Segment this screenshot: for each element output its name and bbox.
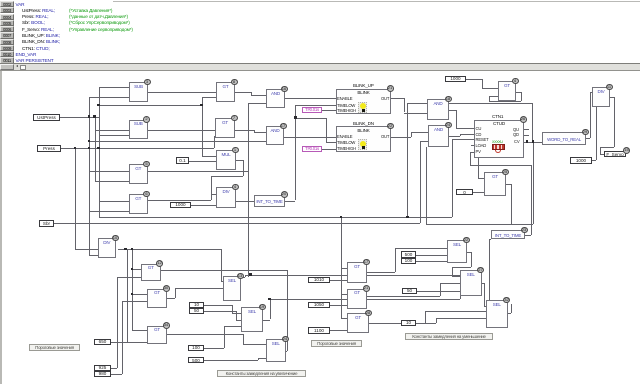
- constant box 650: [94, 339, 111, 345]
- wire: [243, 160, 244, 177]
- operator block AND 18: [427, 99, 449, 120]
- time literal T#0.01s upper: [302, 107, 322, 113]
- operator block SEL 27: [460, 270, 482, 296]
- wire junction: [131, 248, 133, 250]
- wire INT_TO_TIME23 out: [525, 235, 531, 236]
- constant box 500: [188, 357, 204, 364]
- wire to GT bottom2 in1: [341, 294, 347, 295]
- constant box 100: [188, 345, 204, 351]
- input box UstPress: [33, 114, 60, 121]
- wire GT25 out: [506, 184, 511, 185]
- wire junction: [131, 268, 133, 270]
- wire junction: [124, 248, 126, 250]
- operator block MUL 1: [216, 150, 236, 170]
- wire AND18 in1 row: [407, 103, 532, 104]
- wire: [236, 311, 237, 320]
- wire: [175, 288, 176, 298]
- wire GT34 out: [167, 334, 243, 335]
- wire 1050 to GT in2: [330, 305, 347, 306]
- wire vertical x419: [420, 141, 421, 223]
- wire junction: [406, 216, 408, 218]
- wire vertical x75: [75, 148, 76, 249]
- wire junction: [93, 115, 95, 117]
- constant box 50 right: [402, 288, 417, 294]
- wire GT4 out: [516, 92, 521, 93]
- conversion block WORD_TO_REAL 29: [542, 132, 586, 145]
- wire 1000 out: [592, 160, 596, 161]
- wire to AND16 in2: [248, 103, 267, 104]
- wire to GT30 in1: [132, 294, 147, 295]
- wire QD stub: [524, 135, 529, 136]
- wire vertical x122: [122, 301, 123, 374]
- comment threshold values right: [311, 340, 362, 347]
- declaration line 0005: [0, 20, 14, 26]
- constant box 10: [189, 302, 204, 308]
- constant box 1000: [170, 202, 191, 208]
- operator block GT 21: [347, 289, 367, 310]
- wire vertical x117: [117, 277, 118, 368]
- wire 100 to SEL22 in3: [416, 261, 447, 262]
- wire GT7 out: [235, 130, 254, 131]
- wire to MUL in1: [202, 156, 217, 157]
- bulb icon BLINK_DN: [358, 139, 367, 150]
- wire vertical x326: [326, 118, 327, 143]
- wire 1000 to DIV4 in2: [191, 205, 216, 206]
- wire branch: [295, 118, 326, 119]
- wire: [425, 311, 426, 323]
- wire DIV11 out: [610, 97, 614, 98]
- wire to GT4 in2: [489, 96, 498, 97]
- wire vertical x341: [341, 217, 342, 318]
- output box F_Servo: [604, 151, 626, 158]
- wire: [460, 292, 461, 299]
- operator block SEL 32: [486, 300, 508, 328]
- comment slowdown decrease: [405, 333, 493, 340]
- wire to GT25 in1: [478, 178, 484, 179]
- wire junction: [294, 116, 296, 118]
- wire BLINK_UP OUT: [391, 98, 404, 99]
- declaration line 0011: [0, 57, 14, 63]
- wire: [211, 176, 212, 200]
- wire 100 out: [204, 348, 224, 349]
- wire 500 out: [204, 360, 258, 361]
- wire CTN1 down: [478, 158, 479, 179]
- wire GT out: [369, 323, 425, 324]
- wire to BLINK_UP TIMELOW: [295, 105, 336, 106]
- conversion block INT_TO_TIME 20: [254, 195, 285, 207]
- wire: [614, 97, 615, 147]
- wire 925 out: [111, 368, 117, 369]
- wire to SUB2 in2: [99, 135, 130, 136]
- wire to AND17 in2: [89, 141, 266, 142]
- wire junction: [131, 293, 133, 295]
- wire: [456, 110, 457, 128]
- wire MUL out: [236, 160, 243, 161]
- wire: [436, 318, 437, 323]
- wire to GT bottom3 in1: [341, 318, 347, 319]
- splitter and scrollbar strip: [0, 63, 640, 71]
- wire QU stub: [524, 129, 529, 130]
- wire 50 out: [204, 311, 236, 312]
- operator block DIV 10: [98, 238, 117, 258]
- wire vertical x531: [531, 165, 532, 235]
- wire: [471, 252, 472, 268]
- wire vertical x201: [202, 97, 203, 156]
- wire: [245, 275, 246, 277]
- wire 500 to SEL22 in2: [416, 255, 447, 256]
- constant box 1100: [308, 327, 330, 334]
- wire SEL26 out: [482, 283, 484, 284]
- wire to SEL32 in1: [484, 306, 487, 307]
- declaration line 0010: [0, 51, 14, 57]
- declaration line 0004: [0, 14, 14, 20]
- wire to SEL26 in2: [440, 283, 460, 284]
- wire to GT8 in2: [202, 97, 217, 98]
- wire 980 out: [111, 374, 122, 375]
- wire to GT7 in2: [214, 136, 216, 137]
- wire AND24 out: [449, 136, 460, 137]
- wire to SEL26 in1: [460, 275, 461, 276]
- wire: [452, 267, 453, 276]
- wire vertical x132: [132, 249, 133, 330]
- operator block SUB 3: [129, 82, 148, 102]
- operator block GT 5: [129, 164, 148, 184]
- time literal T#0.01s lower: [302, 146, 322, 152]
- constant box 1010: [308, 277, 330, 283]
- wire junction: [200, 104, 202, 106]
- wire GT17 out: [367, 272, 395, 273]
- declaration line 0008: [0, 39, 14, 45]
- wire to BLINK_DN TIMELOW: [326, 142, 336, 143]
- wire: [440, 283, 441, 296]
- wire GT5 out: [148, 171, 248, 172]
- operator block GT 7: [215, 118, 235, 138]
- wire riser x425: [426, 147, 427, 225]
- operator block GT 8: [216, 82, 235, 102]
- wire: [470, 152, 471, 166]
- constant box 1000 top: [445, 76, 466, 82]
- wire: [511, 304, 512, 313]
- wire SEL13 out up: [241, 277, 245, 278]
- wire: [243, 334, 244, 344]
- wire GT30 out: [167, 298, 175, 299]
- wire: [411, 132, 412, 137]
- wire vertical x533: [533, 142, 534, 225]
- wire junction: [97, 147, 99, 149]
- wire: [211, 176, 243, 177]
- comment slowdown increase: [217, 370, 306, 377]
- wire to SEL19 in2: [232, 313, 241, 314]
- wire SEL22 out: [467, 252, 471, 253]
- wire to GT12 in2: [117, 277, 141, 278]
- wire GT6 out: [148, 200, 211, 201]
- bulb icon BLINK_UP: [358, 102, 367, 113]
- wire to SUB2 in1: [95, 130, 130, 131]
- wire: [596, 101, 597, 160]
- wire: [404, 98, 405, 112]
- wire: [600, 147, 601, 154]
- declaration pane background: [0, 0, 640, 64]
- constant box 50: [189, 308, 204, 314]
- wire junction: [88, 147, 90, 149]
- wire Press row: [61, 148, 214, 149]
- wire CV to WORD_TO_REAL: [524, 142, 542, 143]
- wire to AND24 in2: [420, 141, 428, 142]
- wire riser x407: [407, 103, 408, 217]
- operator block GT 6: [129, 194, 148, 214]
- wire SUB2 out to GT7: [148, 130, 216, 131]
- declaration line 0006: [0, 26, 14, 32]
- wire 0 to GT25 in2: [473, 192, 484, 193]
- wire vertical x126: [127, 249, 128, 342]
- wire GT8 out: [235, 92, 251, 93]
- function block CTN1 (CTUD counter): [492, 114, 503, 119]
- wire junction: [532, 140, 534, 142]
- wire DIV10 out: [118, 249, 222, 250]
- operator block GT 25: [484, 172, 506, 196]
- wire to DIV10 in1: [75, 249, 98, 250]
- wire to GT6 in2: [89, 211, 129, 212]
- wire: [460, 134, 461, 137]
- wire riser to GT7 in2: [214, 136, 215, 149]
- wire to AND24 in1: [411, 132, 428, 133]
- wire GT4 loop: [489, 101, 521, 102]
- wire: [489, 239, 491, 240]
- operator block SEL 22: [447, 240, 467, 263]
- operator block DIV 4: [216, 187, 236, 208]
- wire riser x532 CV feedback: [532, 103, 533, 142]
- wire to SEL24 in1: [243, 344, 266, 345]
- window top border: [113, 1, 640, 2]
- wire: [224, 326, 225, 348]
- wire SUB3 out to GT8: [148, 92, 217, 93]
- wire GT12 out: [161, 270, 288, 271]
- wire to SEL22 in1: [395, 248, 447, 249]
- wire to GT4 in1: [482, 88, 498, 89]
- constant box 0.1: [176, 157, 189, 164]
- wire GT out: [367, 296, 440, 297]
- wire to AND16 in1: [251, 95, 266, 96]
- input box Press: [37, 145, 61, 152]
- wire to AND18 in2: [404, 113, 427, 114]
- wire to GT5 in2: [95, 181, 130, 182]
- wire 1100 to GT in2: [330, 330, 347, 331]
- constant box 500 right: [401, 251, 416, 258]
- constant box 0: [456, 189, 473, 196]
- wire to SEL19 in3: [236, 320, 241, 321]
- declaration line 0003: [0, 7, 14, 13]
- operator block GT 4: [498, 81, 516, 101]
- wire to SUB3 in2: [89, 97, 129, 98]
- wire to SEL19 in4: [224, 326, 241, 327]
- wire vertical x247: [248, 103, 249, 277]
- wire BLINK_DN OUT: [391, 137, 411, 138]
- wire vertical x489: [489, 239, 490, 300]
- operator block GT 30: [147, 289, 167, 308]
- wire: [395, 248, 396, 272]
- wire: [232, 305, 233, 313]
- constant box 1000 right: [570, 157, 592, 164]
- wire: [484, 283, 485, 306]
- wire SEL24 out: [286, 351, 287, 352]
- wire: [251, 92, 252, 95]
- operator block SUB 2: [129, 120, 148, 139]
- wire to DIV4 in1: [211, 194, 216, 195]
- wire to CTN1 CU: [456, 128, 474, 129]
- wire to SEL13 in1: [221, 281, 223, 282]
- wire: [258, 358, 259, 360]
- declaration line 0002: [0, 1, 14, 7]
- wire to DIV11 in1: [590, 92, 592, 93]
- wire to DIV10 in2: [89, 255, 98, 256]
- wire UstPress row: [60, 117, 99, 118]
- wire bus y274: [245, 275, 460, 276]
- wire junction: [74, 147, 76, 149]
- wire to CTN1 RESET: [452, 139, 474, 140]
- wire junction: [97, 104, 99, 106]
- wire vertical x98: [99, 87, 100, 217]
- wire: [489, 96, 490, 101]
- operator block GT 34: [147, 326, 167, 345]
- operator block GT 17: [347, 262, 367, 283]
- operator block SEL 19: [241, 307, 263, 332]
- declaration line 0009: [0, 45, 14, 51]
- wire: [221, 249, 222, 281]
- wire to SEL32 in2: [486, 311, 487, 313]
- comment threshold values left: [29, 344, 80, 351]
- wire riser x287: [287, 270, 288, 351]
- wire to SUB3 in1: [99, 87, 130, 88]
- wire to GT34 in1: [132, 330, 147, 331]
- wire: [482, 79, 483, 88]
- wire to AND17 in1: [254, 132, 266, 133]
- wire junction: [249, 273, 251, 275]
- wire: [590, 92, 591, 138]
- operator block GT 12: [141, 264, 161, 282]
- operator block AND 24: [428, 125, 449, 147]
- wire 10 out: [416, 323, 436, 324]
- declaration line 0007: [0, 32, 14, 38]
- wire AND16 out to BLINK_UP ENABLE: [285, 98, 336, 99]
- wire T2 to TIMEHIGH: [322, 149, 336, 150]
- wire bus y217: [99, 217, 452, 218]
- wire: [425, 311, 486, 312]
- wire: [270, 299, 271, 319]
- function block BLINK_UP (BLINK): [353, 83, 374, 88]
- wire bus y299: [270, 299, 460, 300]
- wire T1 to TIMEHIGH: [322, 110, 336, 111]
- constant box 1050: [308, 302, 330, 308]
- operator block SEL 13: [223, 276, 241, 301]
- wire SEL19 out: [263, 320, 270, 321]
- wire AND18 out: [449, 110, 456, 111]
- wire vertical x94: [95, 117, 96, 182]
- wire WORD_TO_REAL out: [586, 138, 590, 139]
- wire: [521, 92, 522, 101]
- wire junction: [526, 140, 528, 142]
- wire SEL32 out: [508, 313, 512, 314]
- wire: [452, 267, 471, 268]
- wire: [470, 165, 531, 166]
- wire: [254, 130, 255, 132]
- wire to SEL32 in3: [436, 318, 486, 319]
- operator block GT 28: [347, 313, 369, 333]
- wire Sbr row: [54, 223, 420, 224]
- wire to SEL24 in2: [258, 358, 266, 359]
- wire MUL feed: [99, 105, 202, 106]
- wire 0.1 to MUL in2: [189, 161, 216, 162]
- wire: [511, 184, 512, 224]
- wire to CTN1 PV: [470, 152, 474, 153]
- wire junction: [340, 216, 342, 218]
- operator block AND 17: [266, 126, 284, 145]
- function block BLINK_DN (BLINK): [353, 121, 374, 126]
- wire to GT5 in1: [89, 171, 129, 172]
- wire bus y224: [426, 224, 534, 225]
- constant box 925: [94, 365, 111, 371]
- input box Sbr: [39, 220, 54, 227]
- operator block DIV 11: [592, 87, 610, 107]
- wire: [600, 147, 614, 148]
- counter icon inside CTN1: [492, 140, 503, 144]
- wire to GT12 in1: [132, 269, 141, 270]
- wire junction: [88, 140, 90, 142]
- wire to SEL26 in1b: [452, 276, 460, 277]
- constant box 980: [94, 371, 111, 377]
- conversion block INT_TO_TIME 23: [491, 230, 525, 239]
- wire 1000 out: [466, 79, 482, 80]
- wire 50 to SEL26 in3: [417, 291, 460, 292]
- wire vertical x295: [295, 105, 296, 201]
- wire junction: [88, 115, 90, 117]
- wire DIV4 out to INT_TO_TIME20: [236, 201, 254, 202]
- wire 10 out: [204, 305, 232, 306]
- wire to GT17 in1: [341, 268, 347, 269]
- wire to CTN1 CD: [460, 134, 474, 135]
- wire 650 to GT34 in2: [111, 342, 147, 343]
- wire AND17 out to BLINK_DN ENABLE: [284, 137, 336, 138]
- wire INT_TO_TIME20 out: [285, 201, 295, 202]
- LOAD/PV negation dashes: [471, 145, 474, 146]
- operator block AND 16: [266, 89, 285, 108]
- wire to F_Servo: [600, 154, 604, 155]
- wire to DIV11 in2: [592, 101, 596, 102]
- wire to GT30 in2: [122, 301, 147, 302]
- wire 1010 to GT17 in2: [330, 280, 347, 281]
- constant box 100 right: [401, 258, 416, 264]
- wire to GT6 in1: [99, 201, 130, 202]
- wire vertical x89: [89, 97, 90, 255]
- wire to SEL13 in2: [175, 288, 223, 289]
- wire junction: [268, 298, 270, 300]
- constant box 10 right: [401, 320, 416, 326]
- wire riser x451: [452, 139, 453, 217]
- operator block SEL 24: [266, 339, 287, 362]
